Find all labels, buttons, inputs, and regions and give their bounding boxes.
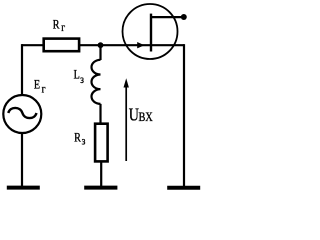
node A (junction dot) — [98, 42, 104, 48]
svg-text:U: U — [129, 106, 140, 125]
ground (right, under source) — [167, 186, 200, 190]
label Rз — [74, 132, 85, 148]
resistor R1 (Rг) — [44, 39, 79, 52]
wire inductor to resistor Rз — [99, 104, 102, 187]
ground (left, under Eг) — [7, 186, 40, 190]
wire node to inductor — [99, 45, 101, 60]
label Rг — [53, 19, 66, 35]
label Uвх — [129, 106, 153, 125]
wire main horizontal (generator to transistor source corner) — [22, 44, 184, 46]
svg-text:R: R — [74, 132, 81, 145]
svg-text:г: г — [61, 21, 65, 34]
transistor VT1 circle body — [123, 4, 178, 59]
drain terminal dot — [181, 14, 187, 20]
sine wave inside generator — [8, 108, 36, 118]
svg-text:L: L — [74, 69, 80, 82]
svg-text:E: E — [34, 79, 40, 92]
transistor channel bar — [150, 14, 152, 52]
svg-text:R: R — [53, 19, 60, 32]
wire right vertical (source down to ground) — [183, 44, 185, 187]
inductor L1 (Lз) — [91, 60, 100, 104]
svg-text:з: з — [80, 73, 84, 86]
arrow Uвх (input voltage) — [124, 78, 129, 161]
label Lз — [74, 69, 84, 87]
gate arrowhead — [137, 42, 144, 48]
wire generator to ground — [21, 133, 23, 187]
ground (middle, under Rз) — [84, 186, 117, 190]
transistor drain lead — [151, 16, 181, 18]
wire left vertical (top corner down to generator) — [21, 44, 23, 95]
svg-text:з: з — [82, 135, 86, 148]
resistor R2 (Rз) — [95, 124, 108, 162]
svg-text:ВХ: ВХ — [139, 110, 154, 124]
label Eг — [34, 79, 46, 96]
generator E1 (Eг) circle — [3, 95, 41, 133]
svg-text:г: г — [42, 82, 46, 95]
